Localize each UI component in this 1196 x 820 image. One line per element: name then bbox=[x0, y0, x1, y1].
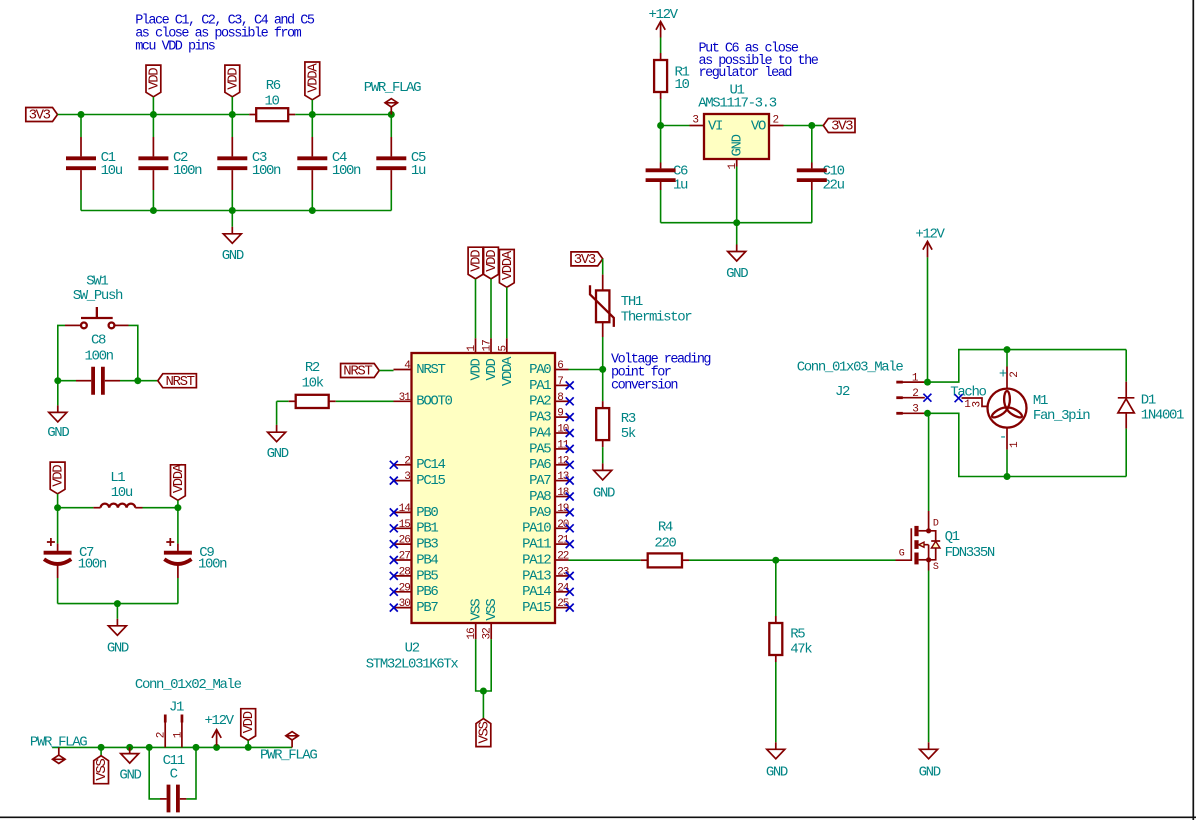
label NRST (at U2) bbox=[341, 364, 380, 378]
svg-text:100n: 100n bbox=[84, 349, 113, 365]
svg-text:NRST: NRST bbox=[165, 374, 194, 390]
wire U1 output bbox=[769, 125, 784, 127]
svg-text:PA2: PA2 bbox=[529, 394, 551, 410]
ground (R3) bbox=[602, 463, 604, 470]
U2 pin 15 PB1 bbox=[394, 527, 412, 529]
power tag VDD (C2) bbox=[146, 65, 161, 97]
svg-text:1N4001: 1N4001 bbox=[1141, 407, 1184, 423]
svg-text:PA6: PA6 bbox=[529, 457, 551, 473]
node junctions top rail bbox=[78, 111, 85, 118]
svg-text:TH1: TH1 bbox=[621, 294, 643, 310]
U2 pin 2 PC14 bbox=[394, 464, 412, 466]
svg-text:9: 9 bbox=[557, 408, 563, 420]
U1 ground pin bbox=[736, 159, 738, 167]
svg-text:100n: 100n bbox=[332, 163, 361, 179]
svg-text:10: 10 bbox=[264, 93, 279, 109]
svg-text:VDDA: VDDA bbox=[171, 463, 187, 493]
svg-text:47k: 47k bbox=[790, 642, 812, 658]
wire R2 to BOOT0 bbox=[336, 400, 394, 402]
svg-text:SW_Push: SW_Push bbox=[73, 288, 123, 304]
capacitor C1 bbox=[80, 115, 82, 138]
svg-text:NRST: NRST bbox=[343, 364, 372, 380]
svg-text:220: 220 bbox=[654, 536, 676, 552]
U2 pin 27 PB4 bbox=[394, 559, 412, 561]
U2 pin 8 PA2 bbox=[555, 400, 569, 402]
ground (SW1) bbox=[57, 381, 59, 406]
svg-text:VSS: VSS bbox=[94, 759, 110, 781]
J2 pin 2 (NC) bbox=[896, 396, 903, 399]
U2 pin 5 VDDA bbox=[506, 338, 508, 353]
svg-text:GND: GND bbox=[730, 134, 746, 156]
U2 pin 28 PB5 bbox=[394, 575, 412, 577]
wire PA0 to divider bbox=[569, 369, 603, 371]
wire U1 bottom rail bbox=[661, 222, 812, 224]
svg-text:GND: GND bbox=[119, 768, 141, 784]
svg-text:6: 6 bbox=[557, 360, 563, 372]
U2 pin 14 PB0 bbox=[394, 511, 412, 513]
wire SW1 right bbox=[129, 325, 138, 380]
svg-text:PA15: PA15 bbox=[522, 600, 551, 616]
svg-text:D1: D1 bbox=[1141, 393, 1156, 409]
U2 pin 23 PA13 bbox=[555, 575, 569, 577]
svg-text:10: 10 bbox=[675, 77, 690, 93]
svg-text:GND: GND bbox=[593, 486, 615, 502]
svg-text:SW1: SW1 bbox=[86, 273, 108, 289]
svg-text:PC15: PC15 bbox=[416, 473, 445, 489]
ground (R5) bbox=[775, 742, 777, 749]
U2 pin 9 PA3 bbox=[555, 416, 569, 418]
wire J2 pin3 to fan bottom rail bbox=[924, 410, 931, 417]
svg-text:PA12: PA12 bbox=[522, 552, 551, 568]
ground bbox=[736, 223, 738, 245]
label 3V3 (TH1) bbox=[571, 252, 603, 266]
svg-text:100n: 100n bbox=[78, 557, 107, 573]
svg-text:100n: 100n bbox=[252, 163, 281, 179]
svg-text:100n: 100n bbox=[173, 163, 202, 179]
J2 pin 1 bbox=[896, 381, 903, 384]
capacitor C5 bbox=[390, 115, 392, 138]
U2 pin 21 PA11 bbox=[555, 543, 569, 545]
svg-text:PA14: PA14 bbox=[522, 584, 551, 600]
svg-text:7: 7 bbox=[557, 376, 563, 388]
svg-text:PB7: PB7 bbox=[416, 600, 438, 616]
svg-text:16: 16 bbox=[466, 628, 478, 640]
wire bottom rail bbox=[81, 210, 391, 212]
svg-text:VO: VO bbox=[751, 119, 766, 135]
svg-text:PB4: PB4 bbox=[416, 552, 438, 568]
svg-text:+12V: +12V bbox=[648, 7, 678, 23]
svg-text:VSS: VSS bbox=[484, 599, 500, 621]
power tag VDDA (C4) bbox=[305, 62, 320, 100]
J1 pin 2 bbox=[164, 715, 167, 723]
power tag VSS (J1) bbox=[98, 744, 105, 751]
svg-text:15: 15 bbox=[399, 519, 411, 531]
svg-text:30: 30 bbox=[399, 598, 411, 610]
svg-text:GND: GND bbox=[919, 765, 941, 781]
svg-text:VDDA: VDDA bbox=[500, 356, 516, 386]
U2 pin 16 VSS bbox=[475, 623, 477, 639]
U2 pin 26 PB3 bbox=[394, 543, 412, 545]
svg-text:VDD: VDD bbox=[484, 250, 500, 272]
svg-text:1u: 1u bbox=[411, 163, 426, 179]
svg-text:mcu VDD pins: mcu VDD pins bbox=[135, 40, 215, 55]
svg-text:VI: VI bbox=[708, 119, 722, 135]
svg-text:C8: C8 bbox=[91, 333, 106, 349]
wire R4 to gate bbox=[689, 559, 896, 561]
wire SW1 left bbox=[58, 325, 65, 380]
power tag VSS (U2) bbox=[482, 691, 484, 719]
svg-text:3: 3 bbox=[404, 471, 410, 483]
svg-text:+12V: +12V bbox=[204, 713, 234, 729]
svg-text:17: 17 bbox=[482, 340, 494, 352]
power tag VDDA (U2 pin5) bbox=[499, 250, 514, 288]
wire top rail bbox=[58, 114, 250, 116]
svg-text:VDD: VDD bbox=[484, 358, 500, 380]
svg-text:PC14: PC14 bbox=[416, 457, 445, 473]
U2 pin 19 PA9 bbox=[555, 511, 569, 513]
svg-text:PA10: PA10 bbox=[522, 521, 551, 537]
power tag VDD (U2 pin1) bbox=[468, 247, 483, 279]
U2 pin 13 PA7 bbox=[555, 480, 569, 482]
svg-text:PWR_FLAG: PWR_FLAG bbox=[364, 80, 421, 96]
ground (J1) bbox=[126, 744, 133, 751]
svg-text:3V3: 3V3 bbox=[831, 119, 853, 135]
svg-text:U2: U2 bbox=[405, 641, 420, 657]
U2 pin 10 PA4 bbox=[555, 432, 569, 434]
ground bbox=[231, 211, 233, 227]
svg-text:regulator lead: regulator lead bbox=[699, 66, 792, 81]
svg-text:AMS1117-3.3: AMS1117-3.3 bbox=[698, 96, 777, 112]
svg-text:PA0: PA0 bbox=[529, 362, 551, 378]
svg-text:1: 1 bbox=[964, 399, 971, 411]
svg-text:PB1: PB1 bbox=[416, 521, 438, 537]
svg-text:G: G bbox=[899, 548, 905, 559]
J2 pin 3 bbox=[896, 412, 903, 415]
svg-text:L1: L1 bbox=[110, 470, 125, 486]
svg-text:PA5: PA5 bbox=[529, 441, 551, 457]
svg-text:VSS: VSS bbox=[469, 599, 485, 621]
svg-text:GND: GND bbox=[47, 425, 69, 441]
svg-text:26: 26 bbox=[399, 535, 411, 547]
power tag VDD (U2 pin17) bbox=[484, 247, 499, 279]
svg-text:29: 29 bbox=[399, 582, 411, 594]
U2 pin 25 PA15 bbox=[555, 607, 569, 609]
svg-text:R2: R2 bbox=[305, 360, 320, 376]
svg-text:22: 22 bbox=[557, 551, 569, 563]
svg-text:3: 3 bbox=[912, 404, 918, 416]
svg-text:GND: GND bbox=[267, 446, 289, 462]
svg-text:PA7: PA7 bbox=[529, 473, 551, 489]
svg-text:100n: 100n bbox=[198, 557, 227, 573]
fan bottom pin bbox=[1006, 428, 1008, 450]
U2 pin 11 PA5 bbox=[555, 448, 569, 450]
svg-text:3V3: 3V3 bbox=[29, 108, 51, 124]
svg-text:PA1: PA1 bbox=[529, 378, 551, 394]
svg-text:Q1: Q1 bbox=[945, 529, 960, 545]
U2 pin 29 PB6 bbox=[394, 591, 412, 593]
svg-text:PB5: PB5 bbox=[416, 568, 438, 584]
svg-text:PB0: PB0 bbox=[416, 505, 438, 521]
svg-text:31: 31 bbox=[399, 392, 412, 404]
svg-text:D: D bbox=[933, 519, 939, 530]
svg-text:STM32L031K6Tx: STM32L031K6Tx bbox=[366, 656, 459, 672]
svg-text:BOOT0: BOOT0 bbox=[416, 394, 452, 410]
svg-text:1: 1 bbox=[1009, 441, 1021, 448]
svg-text:VDDA: VDDA bbox=[305, 63, 321, 93]
svg-text:FDN335N: FDN335N bbox=[945, 545, 995, 561]
svg-text:PA8: PA8 bbox=[529, 489, 551, 505]
node junctions bottom rail bbox=[150, 207, 157, 214]
svg-text:Thermistor: Thermistor bbox=[621, 309, 692, 325]
label NRST (at C8) bbox=[138, 380, 158, 382]
svg-text:PA4: PA4 bbox=[529, 425, 551, 441]
svg-text:Conn_01x03_Male: Conn_01x03_Male bbox=[797, 360, 904, 376]
U2 pin 17 VDD bbox=[490, 338, 492, 353]
wire L1 bottom rail bbox=[58, 603, 178, 605]
svg-text:PB6: PB6 bbox=[416, 584, 438, 600]
svg-text:28: 28 bbox=[399, 566, 411, 578]
U2 pin 30 PB7 bbox=[394, 607, 412, 609]
svg-text:2: 2 bbox=[1009, 372, 1021, 378]
svg-text:+12V: +12V bbox=[915, 226, 945, 242]
wire J1 rail bbox=[52, 746, 292, 748]
svg-text:VDD: VDD bbox=[241, 711, 257, 733]
svg-text:PWR_FLAG: PWR_FLAG bbox=[260, 748, 317, 764]
svg-text:GND: GND bbox=[107, 641, 129, 657]
microcontroller U2 STM32L031K6Tx bbox=[412, 353, 556, 623]
wire VSS pins join bbox=[476, 639, 484, 691]
U2 pin 3 PC15 bbox=[394, 480, 412, 482]
svg-text:VSS: VSS bbox=[476, 721, 492, 743]
svg-text:NRST: NRST bbox=[416, 362, 445, 378]
svg-text:5k: 5k bbox=[621, 426, 636, 442]
svg-text:R4: R4 bbox=[658, 520, 673, 536]
J1 pin 1 bbox=[181, 715, 184, 723]
svg-text:10k: 10k bbox=[302, 375, 324, 391]
svg-text:2: 2 bbox=[156, 732, 168, 738]
svg-text:14: 14 bbox=[399, 503, 412, 515]
svg-text:10u: 10u bbox=[111, 485, 133, 501]
svg-text:VDDA: VDDA bbox=[500, 250, 516, 280]
power +12V (J1) bbox=[213, 744, 220, 751]
label 3V3 (U1 out) bbox=[823, 119, 855, 133]
svg-text:VDD: VDD bbox=[225, 68, 241, 90]
svg-text:conversion: conversion bbox=[611, 378, 677, 393]
svg-text:2: 2 bbox=[912, 388, 918, 400]
svg-text:M1: M1 bbox=[1033, 393, 1048, 409]
svg-text:VDD: VDD bbox=[469, 250, 485, 272]
U2 pin 32 VSS bbox=[490, 623, 492, 639]
svg-text:J2: J2 bbox=[835, 384, 850, 400]
U2 pin 4 NRST bbox=[394, 369, 412, 371]
ground (R2) bbox=[276, 401, 278, 425]
U2 pin 18 PA8 bbox=[555, 496, 569, 498]
svg-text:2: 2 bbox=[404, 455, 410, 467]
svg-text:J1: J1 bbox=[169, 700, 184, 716]
svg-text:VDD: VDD bbox=[51, 465, 67, 487]
svg-text:Conn_01x02_Male: Conn_01x02_Male bbox=[135, 677, 242, 693]
power tag VDD (C3) bbox=[225, 65, 240, 97]
U2 pin 12 PA6 bbox=[555, 464, 569, 466]
svg-text:S: S bbox=[933, 562, 939, 573]
capacitor C2 bbox=[152, 115, 154, 138]
U2 pin 7 PA1 bbox=[555, 384, 569, 386]
U2 pin 22 PA12 bbox=[555, 559, 569, 561]
U2 pin 1 VDD bbox=[475, 338, 477, 353]
svg-text:27: 27 bbox=[399, 551, 411, 563]
svg-text:PA11: PA11 bbox=[522, 537, 551, 553]
U2 pin 24 PA14 bbox=[555, 591, 569, 593]
svg-text:PA3: PA3 bbox=[529, 410, 551, 426]
capacitor C4 bbox=[311, 115, 313, 138]
wire U1 input bbox=[657, 122, 664, 129]
label 3V3 (left) bbox=[26, 108, 58, 122]
ground bbox=[116, 604, 118, 619]
power tag VDD (L1) bbox=[50, 462, 65, 494]
svg-text:R6: R6 bbox=[266, 78, 281, 94]
svg-text:PB3: PB3 bbox=[416, 537, 438, 553]
svg-text:GND: GND bbox=[766, 765, 788, 781]
svg-text:Fan_3pin: Fan_3pin bbox=[1033, 408, 1090, 424]
U2 pin 20 PA10 bbox=[555, 527, 569, 529]
svg-text:GND: GND bbox=[726, 266, 748, 282]
ground (Q1) bbox=[928, 571, 930, 743]
svg-text:3: 3 bbox=[972, 402, 984, 408]
U2 pin 6 PA0 bbox=[555, 369, 569, 371]
svg-text:PA9: PA9 bbox=[529, 505, 551, 521]
capacitor C3 bbox=[231, 115, 233, 138]
svg-text:8: 8 bbox=[557, 392, 563, 404]
svg-text:C: C bbox=[170, 767, 178, 783]
wire NRST to pin 4 bbox=[379, 370, 393, 372]
svg-text:+: + bbox=[999, 366, 1007, 382]
power tag VDD (J1) bbox=[245, 744, 252, 751]
svg-text:32: 32 bbox=[482, 628, 494, 640]
svg-text:VDD: VDD bbox=[146, 68, 162, 90]
svg-text:R3: R3 bbox=[621, 411, 636, 427]
wire J2 pin1 to fan top rail bbox=[924, 379, 931, 386]
svg-text:PA13: PA13 bbox=[522, 568, 551, 584]
svg-text:5: 5 bbox=[497, 346, 509, 352]
svg-text:VDD: VDD bbox=[469, 358, 485, 380]
svg-text:10u: 10u bbox=[101, 163, 123, 179]
svg-text:GND: GND bbox=[222, 248, 244, 264]
power tag VDDA (L1) bbox=[171, 465, 186, 501]
resistor R6 bbox=[249, 114, 256, 116]
svg-text:-: - bbox=[999, 429, 1006, 445]
svg-text:R5: R5 bbox=[790, 627, 805, 643]
svg-text:3V3: 3V3 bbox=[574, 252, 596, 268]
U2 pin 31 BOOT0 bbox=[394, 400, 412, 402]
